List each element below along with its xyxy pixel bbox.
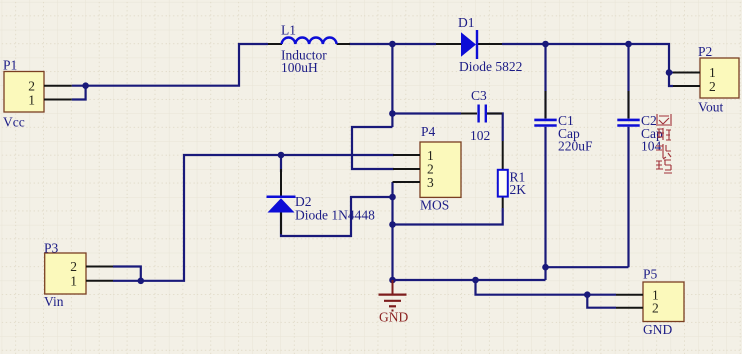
wire C1 bottom	[544, 127, 546, 280]
capacitor C3	[461, 88, 502, 143]
svg-text:Diode 1N4448: Diode 1N4448	[295, 208, 375, 223]
svg-text:P2: P2	[698, 44, 712, 59]
connector P5	[616, 267, 684, 338]
svg-text:Vin: Vin	[44, 294, 64, 309]
wire R1 bottom to source node	[393, 208, 503, 225]
junction C1 bottom	[542, 264, 549, 271]
svg-text:D1: D1	[458, 15, 475, 30]
capacitor C2	[617, 91, 663, 154]
junction P2	[666, 69, 673, 76]
svg-text:L1: L1	[281, 22, 296, 37]
svg-text:1: 1	[70, 273, 77, 288]
wire ground to P5 pin1	[476, 280, 617, 295]
diode D2	[267, 169, 376, 234]
connector P1	[3, 58, 72, 130]
junction switch node top	[389, 41, 396, 48]
wire switch node vertical	[391, 44, 393, 127]
junction gate node	[389, 194, 396, 201]
wire gate jog to P4 pin2	[352, 127, 394, 169]
wire C1 top	[544, 44, 546, 119]
svg-text:Diode 5822: Diode 5822	[459, 59, 522, 74]
svg-text:2: 2	[70, 259, 77, 274]
svg-text:2K: 2K	[510, 182, 527, 197]
wire P1 pin2 to L1	[72, 44, 268, 86]
junction C2 top tap	[625, 41, 632, 48]
junction ground	[389, 277, 396, 284]
svg-text:P1: P1	[3, 58, 17, 73]
svg-text:1: 1	[709, 65, 716, 80]
svg-text:C3: C3	[471, 88, 487, 103]
wire D1 to P2 corner	[502, 44, 669, 73]
wire P2 pin1 stub	[669, 71, 673, 73]
wire C3 row left	[392, 112, 461, 114]
wire C2 top	[627, 44, 629, 119]
svg-text:3: 3	[427, 175, 434, 190]
junction ground P5 tap	[472, 277, 479, 284]
wire P3 pin2 down	[113, 267, 141, 281]
svg-text:220uF: 220uF	[558, 139, 593, 154]
connector P2	[673, 44, 739, 115]
junction source node	[389, 221, 396, 228]
wire C3 to R1 top	[486, 114, 503, 142]
diode D1	[436, 15, 522, 74]
wire D2 bottom to gate node	[281, 197, 393, 236]
wire Vin riser to P4 pin1	[113, 155, 394, 281]
junction P5	[584, 291, 591, 298]
wire C1 to C2 bottom link	[546, 266, 629, 268]
svg-text:Vcc: Vcc	[3, 115, 25, 130]
svg-text:GND: GND	[379, 310, 408, 325]
svg-text:GND: GND	[643, 322, 672, 337]
wire C2 bottom	[627, 127, 629, 267]
connector P3	[44, 241, 113, 310]
svg-text:102: 102	[470, 128, 490, 143]
wire P1 pin1 up to pin2 row	[72, 86, 86, 100]
transistor P4 (MOS)	[393, 124, 462, 212]
wire L1 to D1	[349, 43, 436, 45]
svg-text:2: 2	[28, 79, 35, 94]
svg-text:P4: P4	[421, 124, 436, 139]
svg-text:P3: P3	[44, 241, 59, 256]
label ceramic capacitor (red vertical CJK text)	[656, 114, 672, 173]
svg-text:Vout: Vout	[698, 100, 724, 115]
junction C3 row	[389, 110, 396, 117]
capacitor C1	[534, 91, 593, 154]
svg-text:2: 2	[652, 300, 659, 315]
svg-text:100uH: 100uH	[281, 60, 318, 75]
junction P3	[138, 278, 145, 285]
svg-text:1: 1	[427, 148, 434, 163]
junction at P1	[82, 82, 89, 89]
wire D2 anode drop	[280, 155, 282, 172]
ground symbol GND	[379, 280, 409, 325]
inductor L1	[268, 22, 350, 75]
svg-text:MOS: MOS	[420, 197, 449, 212]
svg-text:2: 2	[709, 79, 716, 94]
wire P4 pin3 down to ground	[391, 182, 393, 280]
wire P5 pin2 branch	[587, 295, 616, 308]
wire ground row	[393, 279, 546, 281]
junction D2 tap	[278, 152, 285, 159]
wire P2 pin2 branch	[669, 73, 673, 87]
svg-text:P5: P5	[643, 267, 658, 282]
junction C1 top tap	[542, 41, 549, 48]
resistor R1	[498, 141, 526, 208]
svg-text:1: 1	[28, 92, 35, 107]
